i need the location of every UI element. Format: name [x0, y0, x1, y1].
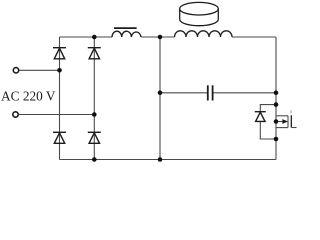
node rail top at second column: [92, 35, 97, 40]
body lead with arrow: [276, 121, 284, 123]
channel bar: [287, 116, 289, 128]
core bar of L1: [114, 27, 137, 29]
wire top AC lead: [19, 69, 60, 71]
capacitor C resonant: [208, 85, 213, 100]
gate lead of V: [291, 127, 296, 129]
node right column diode top: [274, 102, 279, 107]
terminal top input: [13, 68, 18, 73]
wire capacitor right lead: [213, 92, 276, 94]
arrowhead of V: [282, 119, 288, 124]
wire capacitor left lead: [160, 92, 207, 94]
inductor L1 filter choke: [112, 31, 141, 37]
diode D4 bottom-second: [88, 132, 101, 143]
node bottom AC to bridge: [92, 112, 97, 117]
node top rail middle column: [158, 35, 163, 40]
diode VD damper: [255, 105, 276, 139]
drain lead: [276, 115, 288, 117]
wire second bridge column: [93, 37, 95, 160]
wire top rail left: [60, 36, 113, 38]
inductor L2 heating coil: [175, 31, 233, 37]
diode D2 top-second: [88, 48, 101, 59]
transistor V IGBT switch: [276, 116, 288, 128]
source lead: [276, 127, 288, 129]
node right column capacitor: [274, 90, 279, 95]
gate mark tick: [290, 110, 292, 113]
node right column body lead: [274, 119, 279, 124]
node top AC to bridge: [57, 68, 62, 73]
svg-text:AC 220 V: AC 220 V: [1, 90, 56, 105]
diode D3 bottom-left: [53, 132, 66, 143]
pan cooking vessel over coil: [180, 2, 219, 25]
node right column source diode bottom: [274, 137, 279, 142]
wire middle column: [159, 37, 161, 160]
node bottom rail middle column: [158, 157, 163, 162]
wire left bridge column: [59, 37, 61, 160]
wire top rail middle: [141, 36, 175, 38]
node bottom rail second column: [92, 157, 97, 162]
gate bar of V: [290, 115, 292, 127]
node middle column capacitor: [158, 90, 163, 95]
terminal bottom input: [13, 112, 18, 117]
wire right column: [275, 37, 277, 160]
wire bottom rail: [60, 159, 277, 161]
wire top rail right: [232, 36, 276, 38]
diode D1 top-left: [53, 48, 66, 59]
wire bottom AC lead: [19, 114, 95, 116]
